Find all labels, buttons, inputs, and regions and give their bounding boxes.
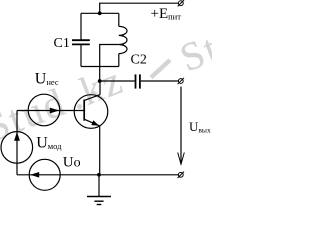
inductor L1 [119, 13, 127, 66]
terminal output top [178, 78, 184, 84]
node emitter junction [97, 173, 101, 177]
svg-text:C2: C2 [131, 53, 147, 68]
wire C2 to output terminal [141, 80, 178, 82]
wire collector to tap junction [99, 81, 101, 95]
transistor VT1 collector lead [84, 95, 100, 101]
ground stem [98, 175, 100, 197]
terminal +E [178, 0, 184, 6]
watermark slash [151, 60, 170, 78]
source Uo circle [29, 159, 60, 190]
wire base rail [17, 110, 84, 112]
svg-text:Uo: Uo [63, 155, 81, 171]
svg-text:+Eпит: +Eпит [151, 6, 182, 22]
wire emitter down [99, 126, 101, 175]
wire junction to C2 [100, 80, 135, 82]
arrowhead Umod [14, 132, 20, 141]
arrowhead Uout [178, 153, 185, 165]
wire tank bottom [81, 66, 119, 68]
transistor VT1 circle [74, 95, 108, 129]
wire to +E supply [100, 3, 179, 13]
arrowhead Uo [30, 172, 39, 178]
source Umod circle [1, 132, 33, 164]
svg-text:St: St [174, 25, 212, 81]
capacitor C1 branch wires [80, 13, 82, 39]
wire left rail [16, 111, 18, 175]
svg-text:C1: C1 [54, 36, 70, 51]
watermark [0, 21, 226, 155]
svg-text:Uмод: Uмод [36, 135, 62, 152]
wire inductor tap [100, 45, 119, 82]
node collector junction [98, 79, 102, 83]
capacitor C2 plates [135, 74, 137, 88]
capacitor C1 plates [72, 39, 90, 41]
wire Uout arrow line [180, 87, 182, 164]
svg-text:Uнес: Uнес [35, 71, 59, 88]
arrowhead Unes [50, 108, 60, 114]
wire bottom rail [17, 174, 178, 176]
svg-text:Uвых: Uвых [189, 119, 211, 135]
transistor VT1 emitter lead [84, 119, 100, 126]
source Unes circle [28, 94, 60, 126]
terminal output bottom [178, 172, 184, 178]
wire tank top [81, 12, 119, 14]
ground bars [87, 197, 111, 205]
transistor VT1 base bar [83, 100, 85, 121]
arrowhead transistor emitter [91, 120, 99, 125]
node tank top junction [98, 11, 102, 15]
